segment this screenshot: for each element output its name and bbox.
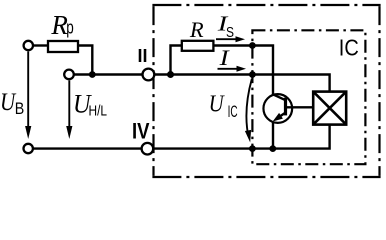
junction dot — [89, 71, 96, 78]
arrow U_B (left, downward) — [25, 52, 31, 140]
resistor Rp — [48, 41, 78, 52]
arrow I_S (current arrow, right) — [216, 36, 245, 42]
wire: mid rail left segment — [73, 73, 142, 75]
terminal (bottom-left) — [24, 144, 33, 153]
junction dot (pin on inner block, bottom rail) — [249, 145, 256, 152]
resistor R — [182, 41, 214, 51]
wire: riser to resistor R — [171, 46, 182, 75]
crossed box (Hall element) — [313, 92, 346, 125]
terminal (below Rp) — [64, 70, 74, 80]
arrow U_H/L (downward) — [66, 81, 72, 140]
IC outer boundary (dash-dot box) — [152, 5, 380, 177]
wire: emitter to bottom rail — [272, 121, 274, 149]
svg-text:p: p — [66, 17, 74, 37]
terminal IV — [142, 143, 154, 155]
terminal II — [143, 69, 155, 81]
wire: base to crossed box — [286, 106, 314, 108]
junction dot (pin on inner block, mid rail) — [249, 71, 256, 78]
svg-text:S: S — [226, 25, 234, 41]
arrow I (current arrow, right) — [218, 66, 247, 72]
junction dot (pin on inner block, top rail) — [249, 42, 256, 49]
svg-text:IC: IC — [228, 103, 238, 121]
junction dot — [167, 71, 174, 78]
inner block boundary (dash-dot box) — [252, 30, 365, 164]
svg-text:B: B — [15, 99, 24, 118]
junction dot (emitter at bottom rail) — [269, 145, 276, 152]
terminal (top-left) — [24, 41, 33, 50]
wire: Rp to corner and down to mid rail — [78, 46, 92, 75]
svg-text:U: U — [209, 91, 225, 117]
svg-text:IV: IV — [132, 119, 150, 144]
svg-text:II: II — [138, 46, 148, 66]
svg-text:IC: IC — [339, 35, 359, 61]
svg-text:R: R — [189, 17, 204, 42]
wire: top rail from R to collector drop — [213, 46, 273, 95]
wire: top-left terminal to Rp — [33, 44, 48, 46]
wire: bottom rail left segment — [33, 147, 141, 149]
wire: bottom rail, terminal IV to crossed box riser — [154, 125, 330, 149]
arrow U_IC (curved voltage arrow) — [245, 79, 252, 143]
transistor Q1 — [263, 94, 292, 123]
wire: mid rail, terminal II to corner at crossed box — [155, 75, 330, 92]
svg-text:H/L: H/L — [89, 103, 108, 120]
